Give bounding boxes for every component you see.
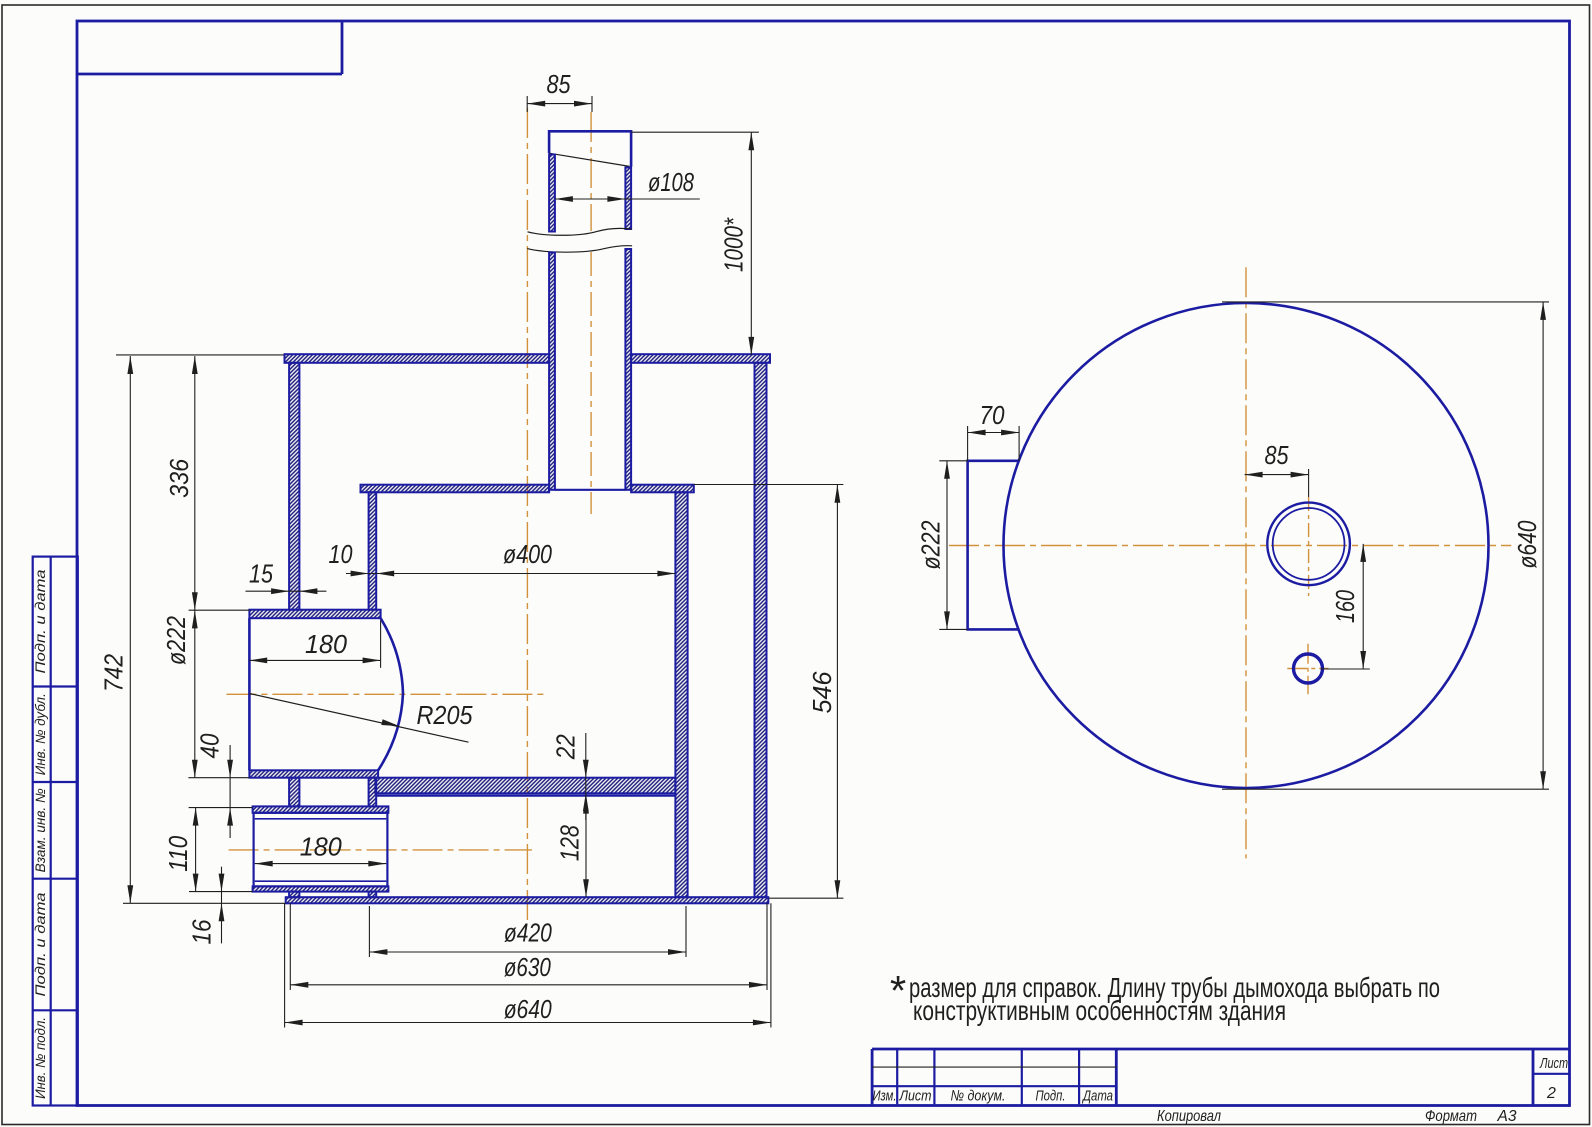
base plate [286,897,769,903]
extension line 1000 top [631,131,759,133]
dimension 110 [195,808,197,892]
extension line circle top [1222,301,1549,303]
dimension diameter 630 [290,984,767,986]
svg-text:А3: А3 [1497,1108,1517,1125]
extension line diameter 630 right [766,903,768,990]
inner wall strip between tunnels [369,778,377,807]
svg-text:ø640: ø640 [504,994,552,1024]
dimension 22 [585,733,587,820]
ash tunnel top plate [253,806,389,812]
title block table [872,1048,1569,1051]
left margin attribute boxes [33,557,78,1106]
chimney pipe cap break edge [549,153,629,166]
extension line base bottom left [123,902,286,904]
extension overshoot 85 right [591,96,593,112]
svg-text:Взам. инв. №: Взам. инв. № [33,788,48,872]
svg-text:1000*: 1000* [719,217,749,272]
svg-text:Лист: Лист [1539,1055,1568,1072]
svg-text:16: 16 [187,919,217,944]
top view horizontal centerline [949,545,1511,547]
svg-text:Изм.: Изм. [873,1088,897,1105]
svg-text:110: 110 [163,835,193,871]
dimension diameter 222 side [194,610,196,778]
firebox tunnel top view [968,461,1020,630]
pipe hole outer circle [1267,503,1350,586]
svg-text:15: 15 [249,559,273,589]
svg-text:Формат: Формат [1425,1108,1477,1125]
outer shell top plate right part [631,354,770,363]
svg-text:85: 85 [1265,440,1289,470]
ash tunnel box [254,813,388,887]
svg-text:ø400: ø400 [503,539,552,569]
dimension 180 firebox [249,659,380,661]
extension line diameter 640 left [284,903,286,1027]
firebox tunnel R205 arc [378,618,403,770]
chimney pipe left wall lower [549,253,555,490]
svg-text:336: 336 [164,458,194,497]
extension line diameter 420 right [685,906,687,957]
ash tunnel inner top line [255,818,387,820]
inner tank top plate right part [631,485,694,493]
pipe break wavy line top [528,228,632,235]
dimension 85 top [527,103,592,105]
chimney pipe centerline upper [590,112,592,231]
extension line tunnel top plate level [189,609,250,611]
outer shell top plate left part [285,354,550,363]
extension line tank top right [694,484,844,486]
dimension 160 [1362,544,1364,669]
extension line diameter 630 left [289,903,291,990]
svg-text:128: 128 [555,825,585,861]
inner tank left wall [369,492,377,609]
shelf plate 22mm [375,778,675,794]
pipe hole vertical centerline [1308,497,1310,596]
pipe break wavy line bottom [527,246,632,253]
svg-text:85: 85 [547,69,571,99]
dimension diameter 420 [369,951,686,953]
svg-text:ø420: ø420 [504,917,552,947]
svg-text:ø222: ø222 [916,520,946,569]
chimney pipe centerline lower [590,252,592,514]
dimension 15 [246,590,327,592]
small hole vertical centerline [1307,644,1309,695]
ash tunnel inner bottom line [255,880,387,882]
svg-text:*: * [890,967,906,1014]
svg-text:10: 10 [329,539,353,569]
left foot strip [289,892,299,898]
extension line ash tunnel top level [189,807,253,809]
chimney pipe left wall upper [549,155,555,232]
firebox tunnel open end [248,618,251,770]
svg-text:№ докум.: № докум. [951,1088,1006,1105]
svg-text:R205: R205 [417,700,473,730]
pipe hole rim in tank plate [555,489,626,491]
small hole circle [1294,654,1323,683]
chimney pipe right wall lower [625,249,631,490]
svg-text:Подп. и дата: Подп. и дата [33,892,48,997]
dimension diameter 222 top view [939,460,967,462]
svg-text:конструктивным особенностям зд: конструктивным особенностям здания [913,995,1286,1026]
svg-text:546: 546 [807,671,837,714]
svg-text:Подп.: Подп. [1036,1088,1066,1105]
extension line diameter 420 left [368,906,370,957]
svg-text:40: 40 [195,733,225,758]
ash tunnel centerline [229,849,532,851]
dimension 546 [836,485,838,899]
extension line circle bottom [1222,788,1549,790]
chimney pipe cap outline [549,131,631,166]
svg-text:ø222: ø222 [161,616,191,665]
inner tank right wall [675,492,687,897]
svg-text:ø108: ø108 [648,167,694,197]
svg-text:Инв. № дубл.: Инв. № дубл. [33,693,48,775]
right foot strip [369,892,377,898]
inner tank top plate left part [361,485,550,493]
svg-text:Подп. и дата: Подп. и дата [33,569,48,674]
svg-text:Инв. № подл.: Инв. № подл. [33,1017,48,1099]
sheet number box [1532,1049,1535,1104]
dimension 336 [194,356,196,610]
dimension 16 [221,867,223,944]
svg-text:180: 180 [300,832,343,862]
svg-text:2: 2 [1546,1085,1556,1102]
extension line base top right [769,897,844,899]
dimension 1000 [750,132,752,355]
svg-text:742: 742 [99,654,129,692]
extension line top plate level left [116,354,284,356]
firebox tunnel top plate [249,610,380,619]
dimension 70 [968,432,1020,434]
extension line diameter 640 right [770,903,772,1027]
extension line tunnel bottom level [188,777,249,779]
firebox tunnel bottom plate [249,770,378,777]
stove body circle [1004,303,1489,788]
small hole horizontal centerline [1287,668,1328,670]
firebox tunnel centerline [226,693,547,695]
outer wall strip between tunnels [289,778,299,807]
svg-text:180: 180 [305,629,348,659]
svg-text:70: 70 [980,400,1005,430]
extension line 180 firebox right [380,621,382,668]
leader R205 [250,694,469,743]
ash tunnel bottom plate [253,886,389,891]
svg-text:Копировал: Копировал [1157,1108,1221,1125]
pipe hole inner circle [1273,508,1345,580]
svg-text:Дата: Дата [1081,1088,1113,1105]
dimension diameter 640 top view [1542,302,1544,789]
dimension 40 [229,745,231,838]
svg-text:ø630: ø630 [504,952,551,982]
dimension 180 ash tunnel [255,863,387,865]
shelf plate bottom line [375,794,675,796]
outer shell left wall [289,363,299,610]
chimney pipe right wall upper [625,168,631,230]
svg-text:22: 22 [551,734,581,760]
dimension diameter 108 [555,198,700,200]
svg-text:ø640: ø640 [1512,520,1542,568]
top-left additional column box [341,21,344,74]
dimension 10 and diameter 400 [346,573,675,575]
svg-text:160: 160 [1330,590,1360,623]
dimension diameter 640 bottom [285,1022,771,1024]
dimension 128 [585,796,587,898]
top view vertical centerline [1245,267,1247,858]
svg-text:Лист: Лист [899,1088,932,1105]
dimension 742 [129,356,131,903]
extension overshoot 85 left [526,96,528,112]
stove vertical centerline [526,108,528,921]
dimension 85 top view [1245,474,1309,476]
extension line ash bottom level [189,891,253,893]
outer shell right wall [755,363,767,897]
